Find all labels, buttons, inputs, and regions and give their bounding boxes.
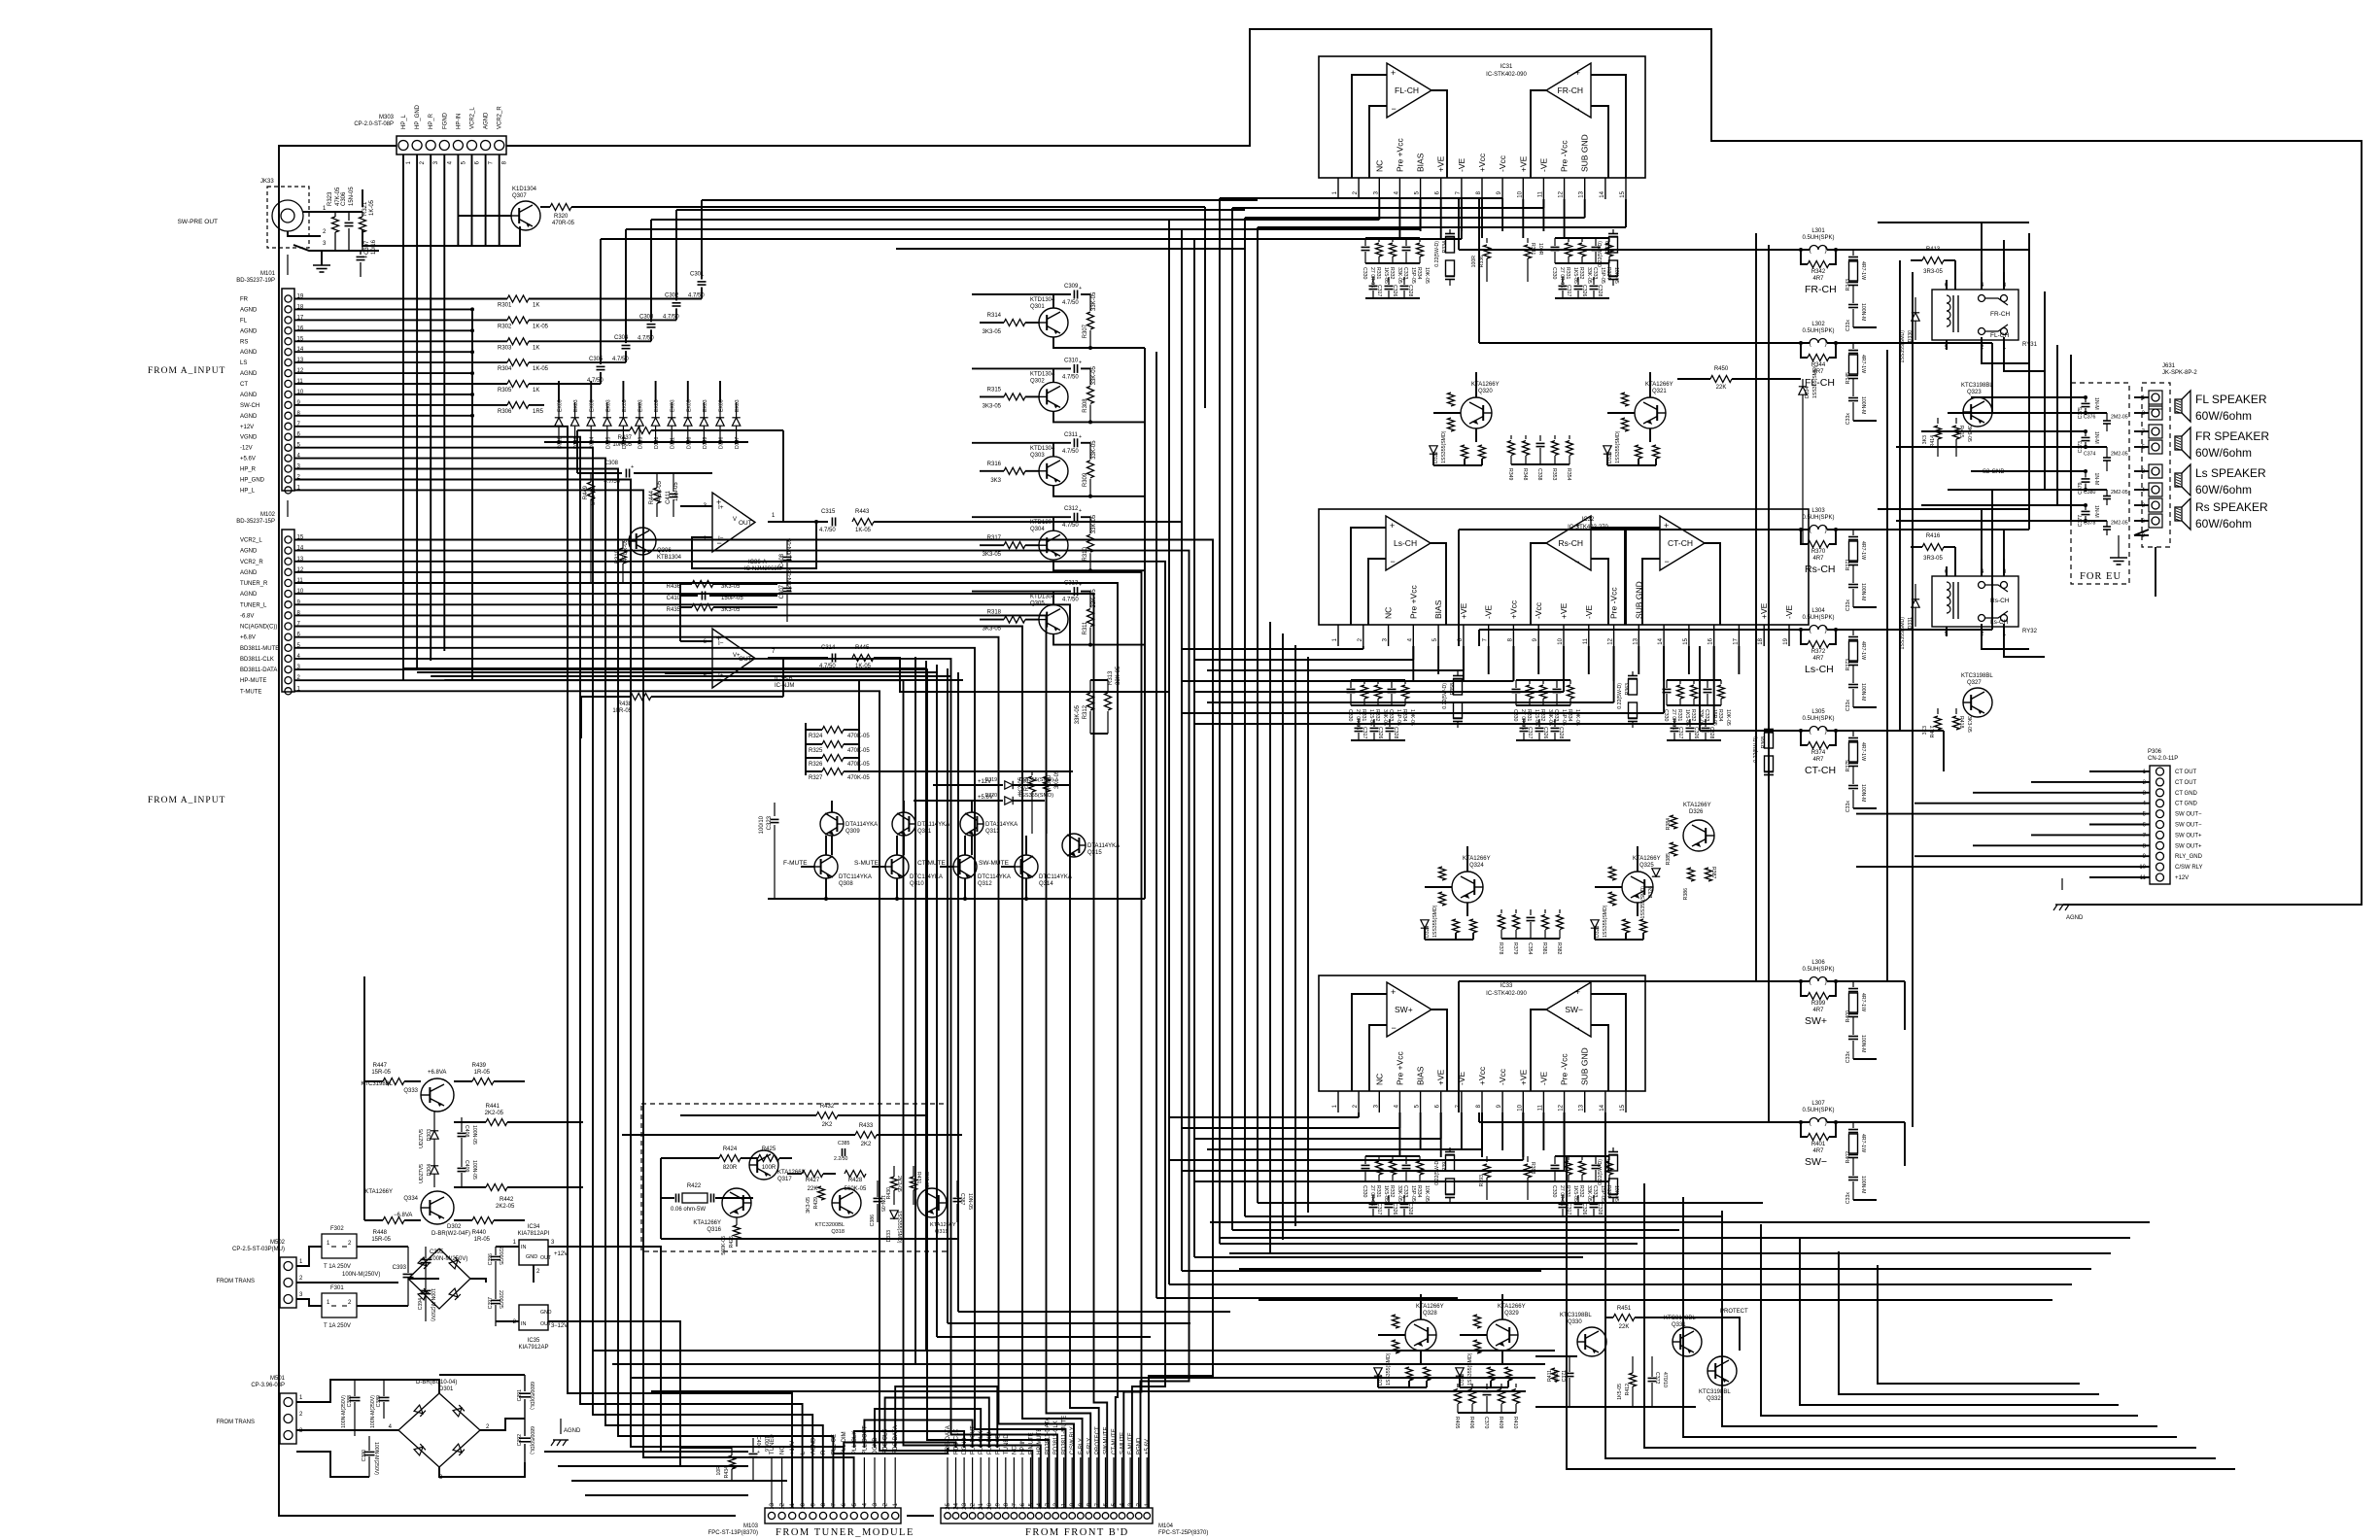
resistor R368 0.22(5W-D) <box>1768 725 1770 729</box>
resistor R443 1K-05 <box>852 519 874 526</box>
wire <box>1182 1170 1565 1172</box>
svg-text:15: 15 <box>1029 1502 1035 1509</box>
svg-text:R329: R329 <box>1024 776 1030 791</box>
capacitor C3xx <box>1358 719 1360 727</box>
svg-text:): ) <box>1825 628 1827 634</box>
svg-text:DTA114YKA: DTA114YKA <box>1087 843 1120 849</box>
wire <box>1954 260 1956 290</box>
svg-text:R417: R417 <box>1930 726 1936 738</box>
svg-text:12: 12 <box>1608 637 1614 644</box>
svg-text:+: + <box>1592 277 1595 283</box>
pin 7 <box>1488 625 1490 646</box>
wire <box>1877 730 1944 732</box>
resistor R341 100R <box>1527 238 1529 243</box>
svg-text:-12V: -12V <box>240 446 253 452</box>
wire <box>499 154 500 246</box>
wire <box>529 383 601 385</box>
pin 7 <box>1461 1091 1463 1112</box>
wire <box>632 1377 1535 1379</box>
wire <box>874 521 1182 523</box>
svg-text:11: 11 <box>1537 190 1543 197</box>
pin 6 <box>1440 1091 1442 1112</box>
resistor R353 <box>1554 435 1556 439</box>
svg-text:SW OUT−: SW OUT− <box>2175 812 2202 818</box>
svg-text:C396: C396 <box>488 1253 494 1266</box>
wire <box>1420 1294 1422 1319</box>
svg-text:SW-MUTE: SW-MUTE <box>1104 1426 1110 1454</box>
svg-text:+VE: +VE <box>1436 155 1446 172</box>
wire <box>1481 199 1483 238</box>
svg-text:3K3-05: 3K3-05 <box>1966 716 1972 733</box>
wire <box>701 200 703 280</box>
wire <box>996 1457 998 1508</box>
resistor R436 3K3-05 <box>680 583 692 585</box>
connector pin 5 <box>2149 440 2162 454</box>
svg-text:R334: R334 <box>1442 241 1448 254</box>
transistor Q310 DTC114YKA <box>885 855 909 878</box>
resistor base <box>1622 393 1629 406</box>
svg-text:1N-M: 1N-M <box>2093 473 2099 486</box>
wire <box>1700 730 1749 732</box>
svg-text:R378: R378 <box>1498 942 1503 955</box>
svg-text:3K3-05: 3K3-05 <box>983 552 1002 558</box>
svg-text:+: + <box>1371 277 1374 283</box>
pin 8 <box>1481 1091 1483 1112</box>
svg-text:1N-M: 1N-M <box>2093 505 2099 518</box>
wire <box>972 1457 974 1508</box>
svg-text:0.06 ohm-5W: 0.06 ohm-5W <box>671 1207 706 1213</box>
wire <box>1232 207 1543 209</box>
svg-text:FL-CH: FL-CH <box>1990 332 2009 339</box>
resistor R3xx <box>1581 238 1583 242</box>
resistor R429 3K3-05 <box>818 1186 825 1200</box>
wire <box>1425 939 1473 941</box>
svg-text:2K2-05: 2K2-05 <box>496 1204 515 1210</box>
svg-text:15P-05: 15P-05 <box>1410 267 1416 284</box>
wire <box>1220 1237 2130 1239</box>
resistor R3xx <box>1378 238 1380 242</box>
pin 1 <box>1337 625 1339 646</box>
svg-text:10: 10 <box>2139 865 2146 871</box>
wire <box>529 298 702 300</box>
svg-text:100N-M: 100N-M <box>1860 1176 1866 1193</box>
capacitor C3xx <box>1562 277 1564 285</box>
capacitor C303 4.7/50 <box>647 324 656 325</box>
pin 11 <box>1542 1091 1544 1112</box>
capacitor C3xx <box>1405 1156 1407 1164</box>
svg-text:Q316: Q316 <box>707 1227 721 1233</box>
svg-text:Rs-CH: Rs-CH <box>1805 564 1836 575</box>
svg-text:+VE: +VE <box>1559 602 1569 619</box>
wire <box>884 1457 886 1508</box>
wire <box>296 1247 322 1266</box>
capacitor C386 10N-05 <box>874 1197 882 1199</box>
resistor R309 33K-05 <box>1089 443 1091 460</box>
wire <box>1244 218 1246 1216</box>
svg-text:-VE: -VE <box>1538 1072 1548 1086</box>
wire <box>1269 622 1271 1253</box>
svg-text:+: + <box>1390 521 1395 530</box>
svg-text:0.5UH(SPK): 0.5UH(SPK) <box>1802 515 1834 521</box>
resistor R319 470R-05 <box>620 548 627 564</box>
svg-text:+: + <box>1402 277 1405 283</box>
resistor R3xx <box>1679 680 1681 684</box>
wire <box>294 383 507 385</box>
svg-text:1N-M: 1N-M <box>2093 431 2099 444</box>
wire <box>1982 641 2029 649</box>
wire <box>612 1363 1545 1365</box>
wire <box>872 866 885 868</box>
resistor R3xx <box>1720 680 1722 684</box>
wire <box>875 1409 981 1448</box>
wire <box>622 381 624 402</box>
svg-text:L304: L304 <box>1811 608 1825 614</box>
resistor R409 <box>1500 1384 1502 1387</box>
resistor R336 100R <box>1486 238 1488 243</box>
resistor base <box>1393 1315 1399 1328</box>
wire <box>988 1457 990 1508</box>
svg-text:100N-M: 100N-M <box>1860 1035 1866 1052</box>
wire <box>1182 228 1421 230</box>
capacitor C304 4.7/50 <box>622 345 631 347</box>
svg-text:100N-05: 100N-05 <box>787 537 793 561</box>
resistor R450 22K <box>1677 378 1710 380</box>
svg-text:R451: R451 <box>1617 1306 1632 1312</box>
svg-text:10: 10 <box>1558 637 1564 644</box>
resistor R400 4R7-1W <box>1852 981 1854 987</box>
svg-text:RDS-DATA: RDS-DATA <box>946 1425 951 1454</box>
wire <box>2134 412 2149 414</box>
svg-text:C330: C330 <box>1362 1185 1367 1198</box>
svg-text:R334: R334 <box>1717 709 1723 722</box>
resistor R442 2K2-05 <box>454 1186 486 1188</box>
svg-text:4R7: 4R7 <box>1812 1008 1824 1013</box>
resistor emitter <box>1636 445 1642 459</box>
svg-text:Q332: Q332 <box>1707 1396 1721 1402</box>
svg-text:−: − <box>1665 557 1670 566</box>
svg-text:R331: R331 <box>1565 1185 1570 1198</box>
wire <box>590 381 592 402</box>
svg-text:Pre +Vcc: Pre +Vcc <box>1395 1051 1404 1085</box>
wire <box>1982 355 2029 363</box>
wire <box>1156 1297 1458 1299</box>
svg-text:C307: C307 <box>364 240 370 255</box>
svg-text:11: 11 <box>1062 1502 1068 1509</box>
wire <box>470 1279 486 1283</box>
svg-text:FL SPEAKER: FL SPEAKER <box>2195 393 2267 406</box>
svg-text:C33x: C33x <box>1845 700 1851 712</box>
svg-text:SW+: SW+ <box>1395 1005 1413 1014</box>
svg-text:R391: R391 <box>1442 1159 1448 1172</box>
svg-text:R339: R339 <box>1605 241 1611 254</box>
svg-text:IN: IN <box>521 1245 527 1250</box>
svg-text:Q307: Q307 <box>512 193 527 199</box>
svg-text:C376: C376 <box>2084 415 2096 421</box>
wire <box>768 657 828 659</box>
svg-text:R431: R431 <box>915 1172 921 1184</box>
connector M101 BD-35237-19P <box>236 255 304 494</box>
svg-text:15: 15 <box>1620 1104 1626 1111</box>
svg-text:R443: R443 <box>855 509 870 515</box>
wire <box>1853 1199 1877 1201</box>
wire <box>937 1336 1151 1338</box>
svg-text:+: + <box>1079 434 1082 440</box>
svg-text:T-MUTE: T-MUTE <box>240 689 261 695</box>
wire <box>296 1299 322 1306</box>
svg-text:CT-CH: CT-CH <box>1668 538 1693 548</box>
svg-text:R319: R319 <box>615 549 621 564</box>
svg-text:NC: NC <box>1384 607 1394 619</box>
capacitor C3xx <box>1388 277 1390 285</box>
pin 3 <box>1378 1091 1380 1112</box>
wire <box>1705 543 1720 625</box>
resistor R412 1K5-05 <box>1630 1373 1637 1386</box>
capacitor C395 100N-M(250V) <box>421 1258 431 1260</box>
svg-text:+VE: +VE <box>1518 1069 1528 1085</box>
wire <box>2089 770 2150 772</box>
wire <box>294 583 1118 1508</box>
resistor R348 <box>1525 435 1527 439</box>
resistor R306 1R5 <box>507 401 529 408</box>
wire <box>294 659 1057 1508</box>
wire <box>1087 1457 1089 1508</box>
wire <box>1249 1283 2072 1285</box>
wire <box>294 340 507 342</box>
wire <box>363 1081 365 1220</box>
svg-text:CT GND: CT GND <box>2175 802 2198 807</box>
svg-text:R334: R334 <box>1567 709 1572 722</box>
wire <box>1021 1457 1023 1508</box>
wire <box>1156 352 1157 1298</box>
transistor Q313 DTA114YKA <box>960 812 983 836</box>
svg-text:R436: R436 <box>667 584 681 590</box>
transistor Q330 KTC3198BL <box>1577 1327 1606 1356</box>
wire <box>294 404 507 406</box>
pin 12 <box>1564 178 1566 199</box>
resistor lower <box>1439 892 1446 906</box>
svg-text:R385: R385 <box>1666 853 1672 866</box>
svg-text:I−: I− <box>718 640 724 647</box>
svg-text:UDZ7V5: UDZ7V5 <box>419 1164 425 1183</box>
svg-text:−: − <box>1392 104 1397 114</box>
resistor lower <box>1622 418 1629 431</box>
svg-text:-Vcc: -Vcc <box>1498 154 1507 172</box>
svg-text:CT-MUTE: CT-MUTE <box>1112 1428 1118 1454</box>
svg-text:HP-IN: HP-IN <box>456 114 462 129</box>
svg-text:R304: R304 <box>498 366 512 372</box>
svg-text:2M2-05: 2M2-05 <box>2111 490 2128 496</box>
wire <box>1644 1183 2196 1448</box>
wire <box>1478 1112 1480 1122</box>
svg-text:3K3: 3K3 <box>1922 435 1928 444</box>
wire <box>1461 199 1463 231</box>
svg-text:HP_R: HP_R <box>429 113 434 129</box>
wire <box>1369 106 1387 178</box>
transistor Q331 KTC3198BL <box>1673 1327 1702 1356</box>
svg-text:IC-NJM: IC-NJM <box>775 683 794 689</box>
svg-text:R303: R303 <box>498 345 512 351</box>
capacitor C3xx <box>1556 680 1558 688</box>
svg-text:16: 16 <box>1020 1502 1026 1509</box>
svg-text:C326: C326 <box>1581 285 1587 297</box>
wire <box>1052 368 1054 382</box>
diode D317 EK03 <box>570 418 578 426</box>
svg-text:C387: C387 <box>959 1193 965 1206</box>
connector M104 FPC-ST-25P(8370) <box>941 1416 1208 1536</box>
svg-text:+6.8V: +6.8V <box>240 635 256 641</box>
wire <box>864 1420 972 1449</box>
capacitor C308 4.7/50 <box>577 472 622 474</box>
wire <box>1638 646 1639 674</box>
wire <box>571 1480 748 1482</box>
svg-text:C315: C315 <box>821 509 836 515</box>
IC IC35 KIA7912AP <box>519 1305 548 1330</box>
svg-text:Q313: Q313 <box>985 829 1000 835</box>
svg-text:+5.6V: +5.6V <box>240 457 256 462</box>
svg-text:NC: NC <box>1374 160 1384 172</box>
wire <box>885 1398 989 1449</box>
svg-text:C326: C326 <box>1392 285 1397 297</box>
wire <box>593 1350 1555 1352</box>
connector pin 7 <box>2149 425 2162 438</box>
diode D313 EK03 <box>636 418 643 426</box>
op-amp FR-CH <box>1546 63 1591 118</box>
wire <box>1478 199 1480 343</box>
svg-text:1SS355(SMD): 1SS355(SMD) <box>1386 1352 1392 1386</box>
wire <box>782 658 784 697</box>
svg-text:33K-05: 33K-05 <box>1091 514 1097 533</box>
svg-text:1K2-05: 1K2-05 <box>1018 776 1024 796</box>
transistor Q303 KTD1304 <box>1039 457 1068 486</box>
wire <box>1591 994 1626 1091</box>
svg-text:SUB GND: SUB GND <box>1580 1047 1590 1085</box>
svg-text:R444: R444 <box>649 490 655 504</box>
wire <box>1144 348 1146 899</box>
svg-text:Q333: Q333 <box>403 1088 418 1094</box>
wire <box>1649 372 1651 397</box>
svg-text:R315: R315 <box>987 387 1002 393</box>
svg-text:+: + <box>1553 719 1556 725</box>
resistor R323 47K-05 <box>332 217 339 232</box>
capacitor C3xx <box>1705 719 1707 727</box>
svg-text:Q310: Q310 <box>910 881 924 887</box>
svg-text:): ) <box>1825 341 1827 348</box>
svg-text:R371: R371 <box>1845 559 1851 571</box>
wire <box>1113 1457 1115 1508</box>
svg-text:Q323: Q323 <box>1967 390 1982 395</box>
wire <box>914 657 916 1364</box>
wire <box>1896 446 2107 448</box>
wire <box>1878 508 2029 510</box>
transistor Q321 KTA1266Y <box>1635 397 1666 428</box>
capacitor C375 1N-M <box>2085 397 2087 402</box>
wire <box>1591 559 1608 625</box>
wire <box>294 459 823 1508</box>
svg-text:R314: R314 <box>987 313 1002 319</box>
wire <box>576 430 578 473</box>
resistor R424 820R <box>661 1157 719 1159</box>
pin 1 <box>1337 1091 1339 1112</box>
svg-text:R448: R448 <box>373 1230 388 1236</box>
connector JK33 SW-PRE OUT <box>178 179 327 248</box>
svg-text:Q327: Q327 <box>1967 680 1982 686</box>
capacitor C3xx <box>1562 1195 1564 1203</box>
wire <box>1080 1457 1082 1508</box>
svg-text:3K3-05: 3K3-05 <box>1966 426 1972 442</box>
transistor Q319 KTA1266Y <box>917 1188 947 1217</box>
resistor base <box>1474 1315 1481 1328</box>
svg-text:IC33: IC33 <box>1500 983 1513 989</box>
svg-text:R433: R433 <box>859 1123 874 1129</box>
svg-text:C/SW-RLY: C/SW-RLY <box>1070 1426 1076 1454</box>
capacitor C301 4.7/50 <box>698 281 707 283</box>
wire <box>894 1457 896 1508</box>
wire <box>1431 1010 1447 1091</box>
capacitor C391 6800/50(DL) <box>519 1392 531 1394</box>
wire <box>896 248 1245 250</box>
wire <box>1479 629 1749 631</box>
svg-text:CP-2.5-ST-03P(MU): CP-2.5-ST-03P(MU) <box>232 1247 285 1252</box>
svg-text:820R: 820R <box>723 1165 738 1171</box>
svg-text:TUNER_L: TUNER_L <box>240 602 267 608</box>
wire <box>1531 543 1546 625</box>
svg-text:IC34: IC34 <box>528 1224 540 1230</box>
svg-text:1SS355(SMD): 1SS355(SMD) <box>1603 905 1608 938</box>
svg-text:Q318: Q318 <box>831 1229 845 1235</box>
svg-text:BD3811-DATA: BD3811-DATA <box>240 667 277 673</box>
wire <box>1239 1268 2091 1270</box>
svg-text:4.7/50: 4.7/50 <box>604 479 620 485</box>
svg-text:R334: R334 <box>1401 709 1407 722</box>
svg-text:1K-05: 1K-05 <box>533 366 549 372</box>
svg-text:R334: R334 <box>1416 1185 1422 1198</box>
svg-text:+: + <box>1371 1195 1374 1201</box>
speaker Ls SPEAKER <box>2175 473 2182 487</box>
transistor Q306 KTB1304 <box>629 528 656 555</box>
svg-text:15P-05: 15P-05 <box>1561 709 1567 726</box>
svg-text:R430: R430 <box>886 1187 892 1200</box>
svg-text:−: − <box>1391 557 1396 566</box>
diode D315 EK03 <box>604 418 611 426</box>
svg-text:+5.6V: +5.6V <box>1145 1439 1151 1454</box>
svg-text:Q302: Q302 <box>1030 378 1045 384</box>
capacitor C3xx <box>1595 1156 1597 1164</box>
wire <box>1181 229 1183 1271</box>
wire <box>1368 559 1386 625</box>
wire <box>896 219 1232 221</box>
wire <box>1625 933 1627 940</box>
svg-text:Q314: Q314 <box>1039 881 1053 887</box>
svg-text:HP-MUTE: HP-MUTE <box>240 678 266 684</box>
op-amp Ls-CH <box>1386 516 1431 570</box>
capacitor C385 2.2/50 <box>842 1148 844 1156</box>
wire <box>1229 1252 2111 1254</box>
resistor R414 3K3 <box>1937 418 1939 424</box>
svg-text:6800/50(DL): 6800/50(DL) <box>529 1426 535 1454</box>
svg-text:R400: R400 <box>1845 1010 1851 1023</box>
wire <box>296 1380 439 1402</box>
svg-text:13: 13 <box>770 1502 776 1509</box>
wire <box>1591 1025 1608 1091</box>
wire <box>1912 272 1914 1127</box>
wire <box>1511 463 1569 465</box>
svg-text:R382: R382 <box>1556 942 1562 955</box>
wire <box>1531 90 1546 178</box>
wire <box>480 1419 525 1430</box>
svg-text:RS: RS <box>240 339 248 345</box>
svg-text:GND: GND <box>526 1254 537 1260</box>
wire <box>844 1443 955 1449</box>
